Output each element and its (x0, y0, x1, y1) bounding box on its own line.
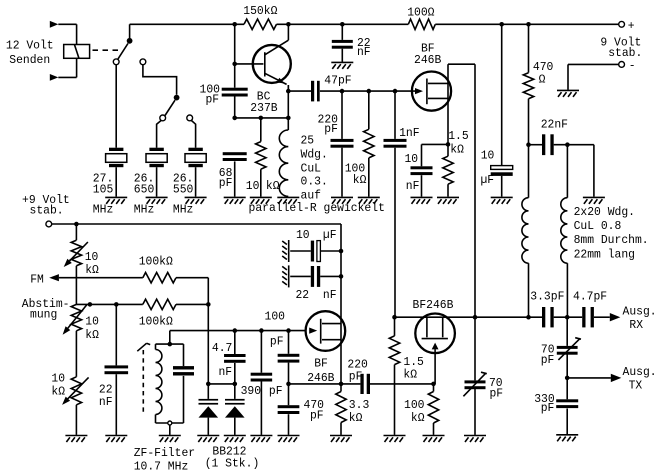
node (286, 382, 291, 387)
inductor 2x20 Wdg (b) (561, 198, 568, 264)
node (565, 315, 570, 320)
wire osc line (170, 330, 306, 332)
wire +9V mid rail (52, 223, 341, 225)
capacitor 390pF (260, 331, 262, 373)
svg-text:pF: pF (541, 353, 555, 367)
svg-text:+: + (628, 19, 635, 33)
wire (76, 58, 78, 77)
wire base (235, 63, 264, 65)
svg-text:kΩ: kΩ (51, 385, 65, 399)
wire (288, 363, 290, 406)
ground (437, 197, 459, 204)
wire source column (447, 64, 449, 156)
svg-text:10.7 MHz: 10.7 MHz (134, 459, 189, 473)
relay K1 coil (64, 45, 90, 59)
ground (105, 436, 127, 443)
ground (rot) (282, 265, 289, 287)
trimmer capacitor 70pF (b) (566, 317, 568, 346)
node rail-22nF (340, 22, 345, 27)
ground (330, 436, 352, 443)
wire drain loop (448, 63, 475, 65)
svg-text:Ω: Ω (539, 73, 546, 87)
node rail-470R (526, 22, 531, 27)
capacitor 3.3pF (542, 307, 545, 327)
resistor 100R (408, 19, 435, 29)
ground (556, 435, 578, 442)
potentiometer 10k (3) (71, 377, 81, 405)
svg-text:kΩ: kΩ (450, 143, 464, 157)
node (88, 302, 93, 307)
svg-text:105: 105 (93, 182, 114, 196)
capacitor 10uF electrolytic (bypass) (290, 250, 311, 252)
ground (105, 197, 127, 204)
ground (358, 197, 380, 204)
varactor diode BB212 (b) (234, 384, 236, 399)
svg-text:25: 25 (301, 133, 315, 147)
ground (146, 197, 168, 204)
svg-text:22: 22 (296, 288, 310, 302)
svg-text:3.3: 3.3 (349, 398, 370, 412)
node (286, 328, 291, 333)
node (233, 328, 238, 333)
node (339, 382, 344, 387)
node (565, 376, 570, 381)
wire (554, 316, 583, 318)
wire (176, 303, 208, 305)
resistor 100k (gate2) (433, 384, 435, 392)
wire (234, 96, 236, 118)
node emitter (286, 89, 291, 94)
relay actuation dashed link (93, 49, 123, 51)
svg-text:nF: nF (357, 45, 371, 59)
wire emitter net (235, 117, 289, 119)
capacitor 4.7nF (234, 331, 236, 354)
capacitor 100pF (base) (222, 88, 248, 91)
node (259, 328, 264, 333)
svg-text:CuL: CuL (301, 161, 322, 175)
node (233, 382, 238, 387)
svg-text:stab.: stab. (30, 204, 64, 218)
switch S2 contact b (187, 115, 193, 121)
ground (464, 436, 486, 443)
svg-text:-: - (629, 59, 636, 73)
wire (287, 85, 289, 130)
svg-text:kΩ: kΩ (353, 173, 367, 187)
svg-text:150kΩ: 150kΩ (243, 4, 278, 18)
resistor 100k (Abstimmung) (143, 299, 176, 309)
wire +9V rail (130, 23, 244, 25)
node (565, 142, 570, 147)
svg-text:nF: nF (323, 288, 337, 302)
svg-text:100Ω: 100Ω (407, 5, 435, 19)
ground (197, 436, 219, 443)
svg-text:10: 10 (51, 372, 65, 386)
svg-text:pF: pF (541, 401, 555, 415)
node (259, 116, 264, 121)
wire (115, 65, 117, 148)
svg-text:22nF: 22nF (541, 117, 568, 131)
svg-text:10: 10 (296, 228, 310, 242)
wire FM (59, 277, 143, 279)
wire (568, 63, 619, 65)
node (339, 249, 344, 254)
svg-text:nF: nF (219, 365, 233, 379)
potentiometer 10k (2) Abstimmung (71, 304, 81, 330)
wire (475, 316, 542, 318)
svg-text:Wdg.: Wdg. (301, 148, 328, 162)
wire (208, 383, 235, 385)
arrow Ausg. RX (610, 313, 621, 321)
svg-text:12 Volt: 12 Volt (6, 39, 54, 53)
terminal +9V stab (46, 221, 52, 227)
node (286, 116, 291, 121)
wire (422, 143, 449, 145)
svg-text:Senden: Senden (9, 53, 50, 67)
node (114, 302, 119, 307)
svg-text:FM: FM (30, 272, 44, 286)
node (446, 142, 451, 147)
trimmer capacitor 70pF (a) (474, 317, 476, 380)
svg-text:MHz: MHz (134, 202, 155, 216)
ground (250, 197, 272, 204)
resistor 10k (emitter) (256, 142, 266, 170)
svg-text:10: 10 (405, 152, 419, 166)
svg-text:MHz: MHz (173, 202, 194, 216)
wire mixer line (395, 316, 476, 318)
capacitor 4.7pF (582, 307, 585, 327)
wire (320, 90, 416, 92)
svg-text:RX: RX (629, 318, 643, 332)
ground (583, 197, 605, 204)
ground (159, 436, 181, 443)
svg-text:10: 10 (481, 148, 495, 162)
resistor 1.5k (source1) (443, 156, 453, 184)
svg-text:1.5: 1.5 (448, 129, 469, 143)
svg-text:kΩ: kΩ (85, 328, 99, 342)
capacitor 470pF (278, 405, 300, 408)
node base (232, 62, 237, 67)
wire to switch S2 pivot (143, 65, 177, 95)
capacitor 22nF (bypass) (290, 275, 311, 277)
svg-text:100: 100 (404, 398, 425, 412)
node (206, 382, 211, 387)
switch S1 contact a (113, 59, 119, 65)
node rail-base (232, 22, 237, 27)
node (340, 89, 345, 94)
node (339, 274, 344, 279)
wire (157, 120, 162, 147)
wire (554, 144, 594, 146)
svg-text:MHz: MHz (93, 202, 114, 216)
arrow FM (49, 274, 59, 281)
capacitor 10nF (421, 144, 423, 166)
svg-text:0.3.: 0.3. (301, 175, 328, 189)
svg-text:550: 550 (173, 182, 194, 196)
ground (rot) (282, 240, 289, 262)
resistor 150k (244, 19, 277, 29)
arrow Ausg. TX (611, 374, 622, 382)
wire (75, 331, 77, 377)
svg-text:4.7: 4.7 (212, 341, 233, 355)
svg-text:µF: µF (323, 228, 337, 242)
svg-text:pF: pF (206, 92, 220, 106)
ground (423, 436, 445, 443)
resistor 3.3k (340, 384, 342, 392)
switch S1 pivot (129, 24, 131, 38)
svg-text:3.3pF: 3.3pF (530, 290, 564, 304)
wire (566, 263, 568, 317)
node (206, 302, 211, 307)
switch S1 contact b (140, 59, 146, 65)
node (168, 342, 173, 347)
ground (224, 197, 246, 204)
svg-text:stab.: stab. (608, 46, 642, 60)
svg-text:100kΩ: 100kΩ (139, 254, 174, 268)
svg-text:237B: 237B (250, 101, 277, 115)
capacitor 220pF (coupling) (360, 374, 363, 394)
wire (594, 316, 610, 318)
ZF trimmer arrow (137, 343, 146, 351)
crystal Q1 27.105 MHz (109, 148, 123, 151)
svg-text:22mm lang: 22mm lang (574, 247, 635, 261)
node (393, 89, 398, 94)
crystal Q2 26.650 MHz (149, 148, 163, 151)
wire (75, 405, 77, 435)
svg-text:pF: pF (269, 384, 283, 398)
input arrow bottom (12V) (50, 74, 59, 81)
svg-text:246B: 246B (414, 53, 441, 67)
svg-text:kΩ: kΩ (349, 411, 363, 425)
wire 1nF to mixer (394, 148, 396, 318)
svg-text:µF: µF (481, 173, 495, 187)
node (392, 315, 397, 320)
svg-text:pF: pF (490, 386, 504, 400)
svg-text:nF: nF (406, 179, 420, 193)
svg-text:4.7pF: 4.7pF (573, 290, 607, 304)
transistor BF246B (mixer) (415, 314, 455, 354)
svg-text:Ausg.: Ausg. (623, 305, 657, 319)
svg-text:nF: nF (99, 395, 113, 409)
wire (528, 263, 530, 317)
svg-text:2x20 Wdg.: 2x20 Wdg. (574, 205, 635, 219)
switch S2 contact a (160, 115, 166, 121)
svg-text:kΩ: kΩ (403, 367, 417, 381)
crystal Q3 26.550 MHz (188, 148, 202, 151)
resistor 470R (528, 24, 530, 72)
wire (288, 90, 311, 92)
inductor 2x20 Wdg (a) (522, 198, 529, 264)
inductor 25 Wdg CuL 0.3 (279, 130, 288, 196)
svg-text:kΩ: kΩ (85, 263, 99, 277)
capacitor 68pF (223, 152, 247, 155)
ground (557, 90, 579, 97)
wire (176, 277, 208, 279)
svg-text:BF: BF (314, 356, 328, 370)
potentiometer 10k (1) (71, 240, 81, 266)
node (473, 315, 478, 320)
svg-text:1nF: 1nF (399, 126, 420, 140)
wire (260, 118, 262, 142)
ground (224, 436, 246, 443)
svg-text:BF246B: BF246B (413, 298, 454, 312)
svg-text:pF: pF (349, 369, 363, 383)
wire (75, 266, 77, 305)
ground (411, 197, 433, 204)
node (526, 142, 531, 147)
svg-text:pF: pF (219, 176, 233, 190)
svg-text:47pF: 47pF (324, 74, 351, 88)
terminal -9V minus (619, 62, 625, 68)
ground (278, 436, 300, 443)
resistor 100k (FM) (143, 273, 176, 283)
switch S1 arm (118, 43, 128, 59)
wire (58, 23, 76, 25)
node (431, 382, 436, 387)
svg-text:100kΩ: 100kΩ (139, 315, 174, 329)
ground (277, 197, 299, 204)
wire (566, 145, 568, 198)
capacitor 47pF (311, 81, 314, 102)
ZF filter tap circle (168, 421, 172, 425)
svg-text:mung: mung (30, 307, 57, 321)
capacitor 10uF electrolytic (501, 24, 503, 165)
capacitor 22nF (tuning) (115, 304, 117, 365)
transistor BF 246B (mixer input) (306, 311, 346, 351)
ZF-Filter frame (156, 343, 184, 345)
svg-text:pF: pF (324, 122, 338, 136)
capacitor 220pF (osc) (341, 91, 343, 139)
svg-text:100: 100 (265, 310, 286, 324)
node (526, 315, 531, 320)
inductor ZF filter (156, 350, 162, 415)
input arrow top (12V) (50, 21, 59, 28)
svg-text:kΩ: kΩ (411, 411, 425, 425)
transistor BC237B (253, 45, 291, 83)
wire (75, 224, 77, 240)
svg-text:(1 Stk.): (1 Stk.) (205, 457, 260, 471)
node rail-collector (286, 22, 291, 27)
svg-text:pF: pF (310, 408, 324, 422)
varactor diode BB212 (a) (207, 384, 209, 399)
terminal +9V plus (619, 21, 625, 27)
node (232, 116, 237, 121)
ground (384, 436, 406, 443)
ground (185, 197, 207, 204)
switch S2 arm (165, 100, 175, 115)
svg-text:10: 10 (246, 179, 260, 193)
capacitor 100pF (gate2) (288, 331, 290, 354)
svg-text:10: 10 (85, 315, 99, 329)
resistor 1.5k (source2) (394, 317, 396, 336)
ground (331, 62, 353, 69)
wire (191, 120, 195, 147)
wire (567, 377, 611, 379)
node rail-10uF (499, 22, 504, 27)
node (367, 89, 372, 94)
wire (289, 383, 361, 385)
ground (491, 197, 513, 204)
transistor BF246B (osc buffer) (412, 72, 451, 111)
wire (76, 303, 142, 305)
ground (65, 436, 87, 443)
capacitor 1nF (394, 91, 396, 139)
capacitor ZF filter (173, 366, 194, 369)
svg-text:Ausg.: Ausg. (623, 365, 657, 379)
svg-text:8mm Durchm.: 8mm Durchm. (574, 233, 649, 247)
wire base column (234, 24, 236, 87)
svg-text:246B: 246B (307, 371, 334, 385)
ground (250, 436, 272, 443)
resistor 100k (gate1) (368, 91, 370, 129)
ZF trimmer dashed line (142, 350, 144, 414)
wire (169, 425, 171, 435)
capacitor 22nF (coupling) (529, 144, 543, 146)
svg-text:390: 390 (241, 384, 262, 398)
svg-text:CuL 0.8: CuL 0.8 (574, 219, 622, 233)
svg-text:ZF-Filter: ZF-Filter (134, 446, 195, 460)
svg-text:pF: pF (270, 335, 284, 349)
node (74, 222, 79, 227)
capacitor 22nF (rail) (341, 24, 343, 40)
svg-text:TX: TX (629, 379, 643, 393)
svg-text:kΩ: kΩ (266, 179, 280, 193)
capacitor 330pF (556, 399, 578, 402)
svg-text:10: 10 (85, 250, 99, 264)
wire (370, 383, 434, 385)
svg-text:650: 650 (134, 182, 155, 196)
switch S2 pivot (174, 95, 180, 101)
ground (331, 197, 353, 204)
